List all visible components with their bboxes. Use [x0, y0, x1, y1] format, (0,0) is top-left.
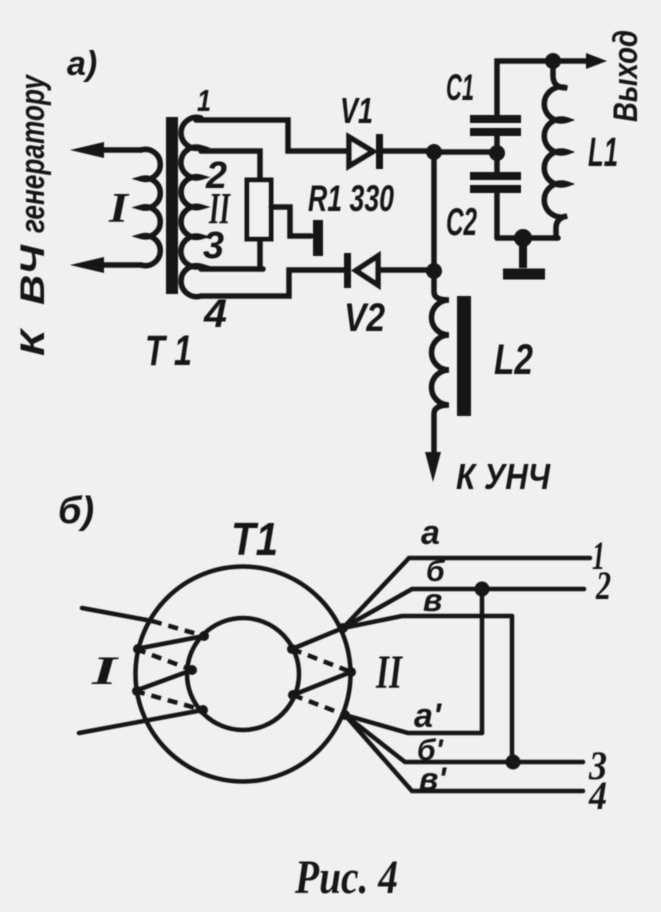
svg-text:L2: L2 [494, 336, 533, 384]
wire node A to node B [431, 152, 437, 271]
winding I node dots [199, 631, 209, 641]
svg-text:а': а' [414, 697, 443, 735]
wire tap 2 to R1 [201, 151, 260, 180]
winding II turn Vu-R1 [292, 628, 343, 649]
winding I turn Q2-D2 [135, 670, 192, 691]
winding I back turn D2-Q3 (dashed) [135, 691, 203, 710]
wire a to terminal 1 [343, 558, 590, 628]
svg-text:4: 4 [588, 773, 607, 818]
ground junction dot [514, 229, 532, 247]
svg-text:1: 1 [197, 83, 211, 118]
ground [519, 238, 527, 268]
winding II back turn R1-R3 (dashed) [292, 649, 351, 672]
wire V1 to node A [381, 148, 430, 154]
junction dot L1 top [545, 53, 561, 69]
node A junction dot [426, 144, 442, 160]
transformer T1 secondary winding II [181, 117, 201, 296]
svg-text:б): б) [58, 490, 94, 532]
wire V2 to node B [381, 267, 430, 273]
svg-text:Т 1: Т 1 [145, 327, 192, 375]
diode V2 [356, 256, 378, 285]
svg-text:Т1: Т1 [231, 513, 278, 565]
winding II turn R3-R2 [293, 672, 351, 695]
wire C1 to midpoint [494, 136, 500, 172]
winding I lead 2 [79, 710, 203, 733]
winding II node dots [287, 644, 297, 654]
svg-text:3: 3 [203, 225, 224, 267]
winding II back turn R2-Vl (dashed) [293, 695, 345, 715]
svg-text:Выход: Выход [607, 30, 645, 122]
wire top of C1 branch [497, 61, 590, 115]
svg-text:Рис. 4: Рис. 4 [294, 851, 398, 904]
svg-text:а): а) [67, 45, 97, 83]
wire terminal 1 to diode V1 [196, 120, 346, 151]
winding I lead 1 back side (dashed) [152, 621, 204, 636]
inductor L2 [432, 271, 450, 452]
wire C2 bottom [494, 193, 500, 238]
transformer T1 core [166, 117, 178, 294]
svg-text:C1: C1 [446, 67, 474, 108]
midpoint junction dot [489, 145, 505, 161]
svg-text:К: К [14, 327, 52, 356]
node B junction dot [426, 263, 442, 279]
wire from terminal 2 down to a' [480, 589, 485, 733]
wire b to terminal 2 [343, 589, 584, 628]
svg-text:а: а [421, 514, 440, 552]
wire node A to C1/C2 midpoint [434, 149, 497, 155]
inductor L1 [544, 61, 567, 238]
wire top lead of winding I [98, 147, 141, 153]
svg-text:генератору: генератору [14, 73, 52, 233]
R1 wiper [271, 207, 311, 236]
winding I turn Q1-D1 [136, 636, 204, 649]
wire b' to terminal 3 [345, 715, 583, 762]
svg-text:в': в' [419, 761, 447, 797]
wire bottom of tank [497, 235, 558, 241]
transformer T1 primary winding I [141, 149, 160, 265]
L2 core [457, 296, 471, 416]
arrow to HF generator (bottom lead of winding I) [70, 257, 104, 273]
wire R1 bottom [257, 239, 263, 269]
svg-text:R1 330: R1 330 [308, 178, 394, 219]
svg-text:К УНЧ: К УНЧ [456, 456, 551, 497]
capacitor C2 [470, 172, 521, 180]
arrow to AF amplifier [425, 452, 441, 482]
diode V1 [349, 137, 373, 166]
wire v' to terminal 4 [345, 715, 583, 791]
wire terminal 4 to diode V2 [201, 270, 345, 296]
svg-text:I: I [108, 186, 130, 232]
wire tap 3 to R1 bottom [201, 266, 263, 272]
svg-text:I: I [90, 648, 119, 693]
junction dot on terminal 3 [506, 755, 521, 770]
junction dot on terminal 2 [475, 582, 490, 597]
svg-text:2: 2 [595, 563, 611, 608]
wire v down to terminal 3 [510, 616, 515, 762]
toroid core inner circle [187, 618, 299, 730]
svg-text:в: в [423, 582, 442, 618]
svg-text:ВЧ: ВЧ [14, 244, 52, 305]
winding I back turn D1-Q2 (dashed) [136, 649, 192, 670]
R1 wiper slot bar [313, 220, 323, 256]
resistor R1 (trimmer) [247, 180, 271, 239]
svg-text:L1: L1 [588, 129, 618, 175]
svg-text:V2: V2 [344, 296, 385, 340]
svg-text:C2: C2 [446, 201, 477, 244]
wire v [343, 616, 512, 628]
svg-text:V1: V1 [340, 90, 373, 131]
toroid core outer circle [136, 567, 351, 782]
arrow to HF generator (top lead of winding I) [70, 142, 104, 158]
wire bottom lead of winding I [98, 262, 141, 268]
wire a' [345, 715, 482, 733]
svg-text:II: II [375, 646, 403, 699]
capacitor C1 [470, 115, 521, 123]
output arrow [586, 53, 607, 69]
svg-text:2: 2 [205, 155, 227, 197]
winding I lead 1 [82, 608, 152, 621]
